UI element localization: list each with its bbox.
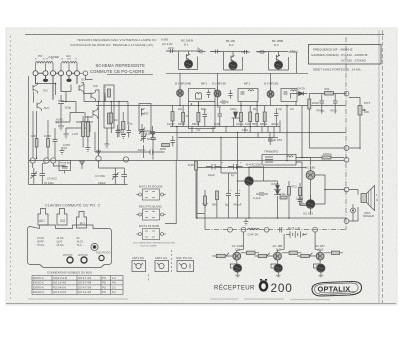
svg-text:GO 150 - 270KHZ: GO 150 - 270KHZ [341,59,366,63]
svg-text:100μ: 100μ [230,107,237,111]
svg-text:50/5μF: 50/5μF [147,137,157,141]
svg-text:AVCC: AVCC [138,148,147,152]
svg-text:SCHEMA REPRESENTE: SCHEMA REPRESENTE [96,63,146,68]
svg-text:4-5: 4-5 [112,281,116,285]
svg-text:1μ: 1μ [231,173,235,177]
terminal circle row2 c5 [123,157,128,162]
wire osc down [196,170,205,230]
svg-text:1K: 1K [114,118,118,122]
svg-text:L.PO: L.PO [72,132,78,136]
wire left drop [165,161,208,224]
circle ANT GO [81,257,87,263]
svg-text:470μF: 470μF [233,203,242,207]
svg-text:50μ: 50μ [128,122,133,126]
svg-text:560: 560 [252,122,257,126]
ground G8 [104,128,109,148]
box ANT1 PO [132,261,146,272]
wires detector [309,94,346,149]
ground G5 [60,147,65,155]
svg-text:MF.1: MF.1 [201,82,208,86]
svg-text:COMMUTE CB PO-CADRE: COMMUTE CB PO-CADRE [90,69,145,74]
terminal circle row2 c3 [51,158,56,163]
resistor R2 100K [47,139,50,148]
svg-text:47Ω: 47Ω [291,185,297,189]
capacitor C21 bus [280,227,282,233]
svg-text:D-4 AC126: D-4 AC126 [246,163,261,167]
MF1 transformer box [189,89,216,129]
resistor R8 [240,113,243,122]
capacitor C10 [203,109,208,122]
svg-text:50μ: 50μ [121,132,126,136]
svg-text:POT.: POT. [364,101,371,105]
svg-text:D-2 BF195: D-2 BF195 [212,82,226,86]
junction circle J5 [264,227,269,232]
stage A wires [166,51,202,70]
frame bottom line [6,303,396,305]
transistor T-D6 AC188 [306,200,315,209]
resistor R15 8,2K [195,161,198,170]
svg-text:EN PO-C: EN PO-C [33,276,44,280]
diode D1 [232,112,240,118]
capacitor C7 50u [117,124,123,137]
svg-text:470Ω: 470Ω [242,129,248,132]
resistor R11 [263,112,266,122]
svg-text:PO: PO [80,222,85,226]
wires R3 [110,102,112,133]
svg-text:30μ: 30μ [217,106,222,109]
svg-text:A/C: A/C [93,84,99,88]
wire mixer column [98,102,100,156]
svg-text:PARLEUR: PARLEUR [363,215,374,218]
button GO [57,209,67,226]
svg-text:EXT: EXT [62,165,67,167]
svg-text:560: 560 [212,203,217,207]
svg-text:GO 1-2-4-5: GO 1-2-4-5 [53,281,67,285]
resistor R16 [288,187,291,196]
resistor R3 [110,113,113,123]
box ANT2 GO [155,261,169,272]
svg-text:ANT1 PO: ANT1 PO [132,256,145,260]
svg-text:150μ: 150μ [65,106,72,110]
svg-text:PO: PO [38,54,43,58]
svg-text:470μ: 470μ [330,109,337,113]
frame top line [25,34,384,36]
spec box top-right [309,45,382,72]
svg-text:TRS 1: TRS 1 [290,50,298,54]
dash separator [171,250,173,274]
speaker SPK [361,194,367,203]
wires CV row [29,161,128,184]
svg-text:100Kμ: 100Kμ [323,152,332,156]
svg-text:5-1: 5-1 [112,290,116,294]
svg-text:1KΩ2: 1KΩ2 [167,122,175,126]
wires left column [37,111,56,158]
svg-text:PO: PO [102,276,106,280]
transistor T-D6b [233,252,241,260]
coil L4 GO [70,62,78,64]
transformer LPO winding B [86,122,89,137]
capacitor C20 [268,138,273,146]
chassis outline [28,225,112,268]
ground G4 [121,135,126,139]
resistor R14 [322,156,331,159]
svg-text:ANT GO: ANT GO [78,254,88,257]
svg-text:2μ: 2μ [197,47,201,51]
transistor Q1 GO [33,83,38,94]
svg-text:CONNEXIONS VISIBLES DU BUS: CONNEXIONS VISIBLES DU BUS [47,271,92,275]
trimmer CT4 osc [151,132,156,143]
svg-text:4,7Ω: 4,7Ω [279,192,286,196]
svg-text:4KΩ3: 4KΩ3 [271,122,279,126]
stage C transistor T-C [274,61,282,69]
capacitor C12 [274,108,279,121]
OPTALIX logo [312,282,362,297]
ground G6 [85,148,90,152]
svg-text:OSC PO-GO: OSC PO-GO [96,252,111,255]
capacitor C15 elco [206,160,221,173]
resistor R7 [197,113,200,123]
wires osc [144,132,154,160]
audio top bus [196,167,306,169]
resistor R10 [256,114,259,122]
thermistor dark circle TH2 [274,264,282,272]
button A/C [38,209,48,226]
switch SW1 box [143,189,160,200]
svg-text:100K: 100K [44,134,51,138]
bottom dash bus [205,229,346,231]
svg-text:70 KΩ: 70 KΩ [37,244,44,247]
switch SW2 box [143,209,160,220]
svg-text:PO: PO [144,112,149,116]
svg-text:Ω: Ω [376,199,378,202]
bullseye [91,243,98,250]
stage B transistor T-B [229,61,237,69]
button PO [77,212,87,229]
schema title [90,63,145,74]
svg-text:5,6K: 5,6K [214,122,220,126]
svg-text:1-2: 1-2 [112,276,116,280]
resistor R24 [301,254,310,257]
terminal circle row2 c4 [96,156,101,161]
stage B wires [210,52,248,71]
plus marks [222,135,275,192]
audio wires [197,158,345,219]
ground G2 [244,218,249,225]
ground ticks under trio [235,272,323,277]
capacitor C24 [220,101,229,103]
faint ghost text row [28,298,330,301]
junction circle J1 [344,91,349,96]
capacitor C27 [127,125,132,138]
trimmer CT3 osc [141,131,147,143]
junction circle J4a [228,227,233,232]
trimmer CT2 [150,126,155,138]
wire left rail [28,76,30,185]
circle ANT PO [67,257,73,263]
resistor R17 [299,188,302,196]
resistor R4 [162,144,170,147]
svg-text:GAMMES (ONDES) : PO 510 - 1605: GAMMES (ONDES) : PO 510 - 1605KHZ [311,53,368,57]
ground G7 [96,149,101,155]
long bus -9V [29,160,345,162]
transistor Q5 mixer [93,108,98,119]
group D6 wires [213,232,260,270]
svg-text:AC 181: AC 181 [303,212,313,216]
svg-text:GO: GO [43,89,48,93]
jack circle [351,208,356,213]
coil L2 cadre [46,62,53,64]
resistor R23 [289,251,297,254]
svg-text:56KΩ: 56KΩ [178,122,186,126]
resistor R25 [331,251,339,254]
svg-text:+9V: +9V [196,129,201,132]
ground G1 [58,109,64,130]
transistor circle T-D1 [177,90,184,97]
svg-text:RÉCEPTEUR: RÉCEPTEUR [214,284,255,291]
transistor circle T-D2 [214,90,221,97]
IF vertical stubs [173,102,288,133]
junction circle J9 [344,219,349,224]
transistor T-D4 driver [245,177,254,186]
junction circle J7 [313,227,318,232]
IF lower bus wires [150,127,346,138]
resistor R20 [216,254,225,257]
choke coil [247,228,259,230]
svg-text:D-8: D-8 [319,248,324,252]
resistor R27 [122,122,125,130]
capacitor C-A2 [197,50,206,54]
MF1 divider [189,102,216,106]
svg-text:CONTROLEUR DE 20000 Ω/V BRANC: CONTROLEUR DE 20000 Ω/V BRANCHE A LA MAS… [70,43,153,47]
capacitor C9 [171,136,176,147]
svg-text:247μ: 247μ [168,46,175,50]
svg-text:PO: PO [56,121,60,125]
svg-text:FREQUENCE MF : 480 KHZ: FREQUENCE MF : 480 KHZ [313,48,353,52]
wires below circles [36,76,78,100]
resistor R19 [280,196,287,199]
thermistor dark circle TH3 [317,264,325,272]
capacitor C19 [256,193,268,195]
svg-text:A 900: A 900 [161,38,169,42]
svg-text:GO 2-1-3-8: GO 2-1-3-8 [78,290,92,294]
resistor R18 560 [216,191,219,200]
wire avc up [94,132,96,152]
capacitor C16 elco [228,164,243,170]
svg-text:D-2: D-2 [229,43,234,47]
svg-text:GO 4-7-3-8: GO 4-7-3-8 [78,285,92,289]
capacitor C-A1 [167,49,176,53]
svg-text:PO 2-4-5-6: PO 2-4-5-6 [53,285,66,289]
transformer LPO winding A [82,122,85,137]
svg-text:GO: GO [66,54,71,58]
svg-text:EN PO-A: EN PO-A [33,285,44,289]
transistor T-D7b [274,252,282,260]
capacitor C-B1 [212,50,221,54]
svg-text:TRANSFO: TRANSFO [264,150,279,154]
capacitor C-B2 [242,50,251,54]
svg-text:D-3: D-3 [274,43,279,47]
capacitor C14 [333,96,338,108]
svg-text:68KΩ: 68KΩ [260,122,268,126]
svg-text:PO: PO [102,281,106,285]
svg-text:40μ: 40μ [178,108,183,111]
terminal circle C7b [83,71,88,76]
capacitor C25 [298,196,303,206]
junction circle J8 speaker line [344,187,349,192]
svg-text:CHF 1H: CHF 1H [248,232,259,236]
svg-text:POUR LE CLAVIER: POUR LE CLAVIER [140,245,157,248]
MF1 cap [207,90,211,99]
trimmer CV2 [40,168,46,181]
circle OSC [99,255,104,260]
capacitor C17 [226,188,231,201]
capacitor C-C1 [258,50,267,54]
bobbin winding 2 [108,113,111,124]
transistor T-D5 AC187 [306,171,315,180]
svg-text:MF.2: MF.2 [244,82,251,86]
coil terminal stubs [36,63,78,71]
svg-text:1K: 1K [186,115,189,118]
logo O mark [259,279,269,292]
wire down to circle row2 [32,111,34,158]
junction circle J4 [241,227,246,232]
audio bottom bus [196,217,346,219]
transistor Q3 GO [79,83,84,94]
svg-text:OSC PO GO: OSC PO GO [176,256,193,260]
chassis dash-dot vertical line right [345,37,347,230]
svg-text:4700μ: 4700μ [316,109,325,113]
svg-text:5μ: 5μ [225,203,229,207]
table frame [32,276,123,295]
transistor Q2 AVC [37,100,42,111]
antenna symbol [80,161,85,169]
svg-text:MOT.1 P1 ROUGE: MOT.1 P1 ROUGE [139,185,163,189]
oscillator coil box PO [139,104,151,132]
svg-text:D-7: D-7 [276,248,281,252]
svg-text:A/C: A/C [290,108,294,111]
svg-text:8,2K: 8,2K [188,163,194,167]
IF cross verticals [177,102,302,161]
trimmer CV3 [112,169,119,181]
diode D2 OA79 [294,92,308,96]
capacitor C13 [320,96,325,108]
svg-text:560Ω: 560Ω [192,122,200,126]
svg-text:CV OSC: CV OSC [95,174,105,178]
svg-text:PO: PO [102,290,106,294]
svg-text:10μ: 10μ [278,108,283,111]
battery B1 [286,231,307,238]
svg-text:240μF: 240μF [98,181,106,185]
svg-text:+: + [306,232,308,236]
wires mixer mesh [84,94,128,125]
trimmer CV1 [31,168,38,181]
transistor circle T-D3 [267,91,274,98]
wires top-left mesh [36,78,72,95]
MF1 coil [196,93,202,100]
electrolytic cap dark blob 1 [43,79,48,82]
MF3 transformer box [281,89,297,102]
resistor R9 [249,112,252,122]
box OSC PO GO [177,261,194,272]
capacitor C5 150u [58,95,64,110]
svg-text:70,3: 70,3 [77,244,82,247]
diodes D3 D4 [274,186,281,195]
top stage bottom line [166,72,308,74]
thermistor dark circle TH1 [234,264,242,272]
ground G9 [203,204,208,208]
svg-text:A/C: A/C [39,219,45,223]
svg-text:CLAVIER COMMUTÉ OU PO. C: CLAVIER COMMUTÉ OU PO. C [45,203,101,208]
frame left dotted line [10,36,12,300]
switch SW3 box [143,229,160,240]
frame right dash line [382,30,384,303]
svg-text:10K: 10K [364,110,369,114]
svg-text:1KΩ2: 1KΩ2 [236,122,244,126]
group D8 wires [297,232,343,270]
stage A transistor T-A [184,60,192,68]
svg-text:OA79: OA79 [297,87,305,91]
svg-text:500μ: 500μ [201,108,207,111]
ground G3 [64,132,69,138]
capacitor C8 avc [140,150,155,155]
svg-text:D-6: D-6 [236,248,241,252]
top-left note text [70,38,156,47]
svg-text:GO 5-7-4-8: GO 5-7-4-8 [78,276,92,280]
svg-text:REC.P P1 BLANC: REC.P P1 BLANC [139,205,162,209]
svg-text:GO 2-3-5-6: GO 2-3-5-6 [53,290,67,294]
capacitor C18 [235,188,240,201]
coil L1 PO [36,62,46,64]
svg-text:CADRE: CADRE [49,55,60,59]
transistor Q4 A/C [91,90,96,101]
svg-text:GO: GO [81,78,86,82]
svg-text:10μF: 10μF [208,173,215,177]
capacitor C6 [53,134,58,147]
svg-text:MOT.2 P1 NOIR: MOT.2 P1 NOIR [139,224,159,228]
svg-text:D-3 BF195: D-3 BF195 [264,81,278,85]
svg-text:GO: GO [63,146,67,150]
bobbin winding 1 [108,89,111,97]
frame right solid line [378,30,380,303]
svg-text:26 KΩ: 26 KΩ [57,244,64,247]
svg-text:2-1: 2-1 [112,285,116,289]
svg-text:DEBIT SANS PORTEUSE : 14 MA: DEBIT SANS PORTEUSE : 14 MA [313,68,362,72]
wire to speaker [349,190,358,222]
resistor R21 [247,251,256,254]
bobbin box [104,85,114,128]
capacitor C11 [218,108,223,121]
svg-text:200: 200 [271,281,293,295]
resistor R22 [258,254,267,257]
junction circle J2 [344,146,349,151]
svg-text:OA95: OA95 [271,182,279,186]
svg-text:CV ACC: CV ACC [47,177,57,181]
trimmer CV4 [122,169,128,181]
resistor R1 15K [35,139,38,148]
svg-text:GO: GO [60,219,66,223]
svg-text:D-1 BF194B: D-1 BF194B [175,82,191,86]
svg-text:AC 180: AC 180 [305,166,315,170]
potentiometer POT 5K [358,106,362,116]
svg-text:D-1: D-1 [184,43,189,47]
svg-text:120Ω: 120Ω [296,197,304,201]
IF bus top wire [96,105,346,107]
svg-text:15K: 15K [31,134,36,138]
svg-text:8/6K: 8/6K [160,147,166,151]
MF2 transformer box [238,89,258,102]
electrolytic cap dark blob 2 [66,79,71,82]
svg-text:ANT PO: ANT PO [63,254,72,257]
